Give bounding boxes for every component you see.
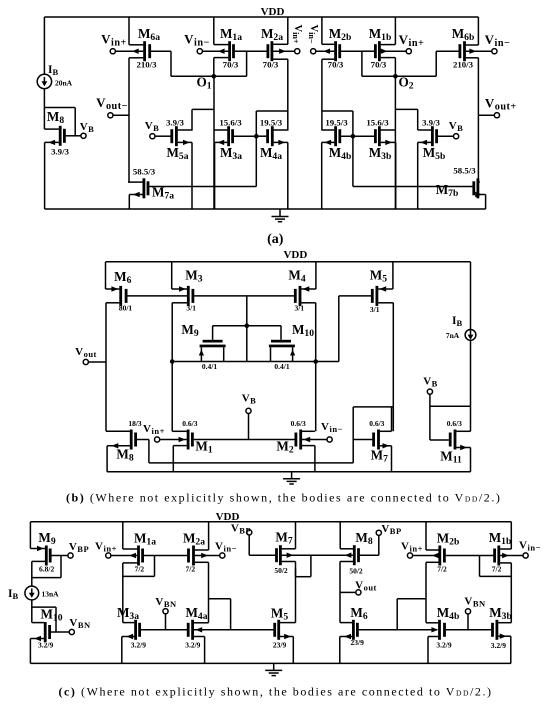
wire M5b drain jog (a)	[395, 109, 417, 130]
label 3/1 M3 (b)	[186, 304, 196, 313]
net label VDD (c)	[216, 511, 240, 523]
transistor M9 (c)	[30, 522, 68, 586]
svg-text:70/3: 70/3	[223, 60, 239, 70]
label M5b	[423, 145, 446, 162]
wire gate column (b)	[246, 296, 248, 362]
svg-text:3.9/3: 3.9/3	[51, 147, 69, 157]
terminal Vout- (a)	[108, 113, 113, 118]
label M4a	[260, 145, 282, 162]
wire VDD rail (b)	[106, 261, 471, 263]
transistor M8 (b)	[106, 430, 353, 472]
svg-text:210/3: 210/3	[453, 60, 474, 70]
label 3.9/3 M5b	[422, 117, 440, 127]
junction dot gate net right (a)	[351, 134, 356, 139]
svg-text:0.6/3: 0.6/3	[182, 419, 197, 428]
label VB mid-left (a)	[145, 120, 160, 133]
label M8 (c)	[355, 530, 372, 547]
wire ground rail (c)	[30, 662, 511, 664]
transistor M2a	[247, 17, 295, 131]
label VBN right (c)	[464, 596, 486, 609]
label VB mid-right (a)	[449, 120, 464, 133]
label 70/3 M2b	[328, 60, 344, 70]
transistor M4b (c)	[426, 620, 491, 664]
net label VDD (a)	[261, 6, 285, 18]
label 19.5/3 M4b	[325, 117, 348, 127]
label 7nA (b)	[446, 331, 460, 340]
caption (c)	[59, 685, 493, 699]
label M6a	[138, 26, 160, 43]
transistor M11 (b)	[430, 406, 471, 472]
wire Vout- stub (a)	[113, 114, 129, 116]
transistor M2 (b)	[295, 430, 328, 472]
terminal Vin- (b)	[327, 437, 332, 442]
svg-text:70/3: 70/3	[371, 60, 387, 70]
terminal Vin- middle (a)	[311, 49, 316, 54]
label M2b	[329, 26, 352, 43]
label M2a (c)	[183, 531, 205, 548]
wire VBP mid drop (c)	[248, 535, 250, 555]
svg-text:20nA: 20nA	[55, 79, 73, 88]
label M4b (c)	[437, 605, 460, 622]
wire capacitor bottom line (b)	[172, 361, 316, 363]
label M5 (c)	[271, 606, 288, 623]
terminal VBP mid (c)	[247, 530, 252, 535]
label M1b (c)	[489, 530, 512, 547]
label M1a (c)	[134, 531, 156, 548]
label 58.5/3 M7b	[453, 166, 476, 176]
label 58.5/3 M7a	[133, 167, 156, 177]
transistor M8 (c)	[340, 522, 379, 623]
svg-text:(c) (Where not explicitly show: (c) (Where not explicitly shown, the bod…	[59, 685, 493, 699]
label Vin- right (a)	[485, 32, 511, 49]
transistor M4 (b)	[294, 262, 316, 432]
label Vin+ (b)	[143, 423, 165, 436]
wire M5a drain jog (a)	[192, 109, 214, 130]
label VBP right (c)	[381, 523, 401, 536]
svg-text:7nA: 7nA	[446, 331, 460, 340]
transistor M6 (b)	[106, 262, 189, 432]
label M3b	[369, 145, 392, 162]
label Vin- inner-left (a)	[184, 32, 210, 49]
label VBP left (c)	[69, 541, 89, 554]
label IB (a)	[48, 64, 58, 77]
wire M8 gate-drain box (a)	[44, 108, 75, 136]
terminal Vin+ right (a)	[406, 49, 411, 54]
svg-text:19.5/3: 19.5/3	[325, 117, 348, 127]
label 50/2 M8 (c)	[349, 567, 363, 576]
label M10 (b)	[292, 322, 314, 339]
transistor M3 (b)	[172, 262, 294, 432]
svg-text:VDD: VDD	[261, 6, 285, 18]
wire M4a diode box (a)	[256, 111, 288, 136]
wire O1 column down (a)	[213, 76, 215, 209]
wire VB drop (b)	[248, 413, 250, 439]
label 3.2/9 M3a (c)	[131, 640, 146, 649]
terminal Vin+ right (c)	[407, 553, 412, 558]
label 0.4/1 M9 (b)	[202, 362, 217, 371]
svg-text:0.6/3: 0.6/3	[291, 419, 306, 428]
label M5 (b)	[370, 268, 387, 285]
wire M2b drain jog (c)	[397, 599, 426, 630]
terminal Vin+ left (c)	[106, 553, 111, 558]
label Vin+ right (a)	[399, 32, 425, 49]
label 70/3 M2a	[263, 60, 279, 70]
current source IB (a)	[37, 74, 51, 88]
svg-text:3.2/9: 3.2/9	[185, 640, 200, 649]
transistor M3a	[214, 126, 255, 209]
terminal VBP right (c)	[376, 530, 381, 535]
label 3/1 M5 (b)	[370, 305, 380, 314]
transistor M3b (c)	[491, 620, 511, 664]
svg-text:3.9/3: 3.9/3	[422, 117, 440, 127]
label M11 (b)	[440, 449, 462, 466]
label 0.6/3 M2 (b)	[291, 419, 306, 428]
transistor M5b	[418, 126, 454, 209]
terminal VBN right (c)	[465, 609, 470, 614]
svg-text:15.6/3: 15.6/3	[366, 117, 389, 127]
label Vin- middle rotated (a)	[307, 24, 319, 43]
label M2b (c)	[437, 531, 460, 548]
label 7/2 M2a (c)	[186, 564, 196, 573]
svg-text:(a): (a)	[267, 232, 284, 247]
label 18/3 M8 (b)	[128, 419, 142, 428]
wire Vout stub (b)	[88, 361, 106, 363]
transistor M4b	[322, 126, 374, 209]
label O1 (a)	[196, 75, 211, 92]
label 0.6/3 M11 (b)	[447, 419, 462, 428]
terminal Vin+ left (a)	[110, 49, 115, 54]
wire Vout+ stub (a)	[478, 114, 494, 116]
transistor M7 (b)	[353, 407, 393, 472]
label Vout- (a)	[96, 95, 128, 112]
terminal Vout+ (a)	[494, 113, 499, 118]
label 13nA (c)	[41, 590, 59, 599]
label M3a	[220, 145, 242, 162]
wire M5 gate jog (b)	[316, 296, 339, 362]
svg-text:3.2/9: 3.2/9	[131, 640, 146, 649]
circuit (c): bulk-driven pseudo-differential amplifier	[8, 511, 541, 699]
svg-text:0.4/1: 0.4/1	[274, 362, 289, 371]
label Vin+ right (c)	[401, 541, 423, 554]
transistor M3b	[374, 126, 396, 209]
terminal VBN mid-left (c)	[163, 609, 168, 614]
wire gate net down right (a)	[352, 136, 354, 186]
terminal VBP left (c)	[68, 553, 73, 558]
terminal VB mid-left (a)	[150, 134, 155, 139]
svg-text:0.4/1: 0.4/1	[202, 362, 217, 371]
wire O2 column down (a)	[394, 76, 396, 209]
svg-text:70/3: 70/3	[263, 60, 279, 70]
svg-text:18/3: 18/3	[128, 419, 142, 428]
transistor M5a	[155, 126, 192, 209]
label 7/2 M1b (c)	[492, 564, 502, 573]
wire IB to M10 (c)	[31, 600, 33, 623]
terminal Vin- left (c)	[220, 553, 225, 558]
svg-text:58.5/3: 58.5/3	[453, 166, 476, 176]
transistor M8 (a)	[44, 126, 81, 209]
label M6b	[452, 26, 475, 43]
svg-text:23/9: 23/9	[351, 638, 365, 647]
label O2 (a)	[398, 75, 413, 92]
circuit (b): bulk-driven OTA with MOS capacitors	[66, 249, 501, 505]
label M2a	[261, 26, 283, 43]
label M4 (b)	[288, 268, 305, 285]
label 20nA (a)	[55, 79, 73, 88]
label M7b	[436, 182, 459, 199]
circuit (a): bulk-driven FVF differential amplifier	[37, 6, 517, 247]
svg-text:0.6/3: 0.6/3	[447, 419, 462, 428]
label M1 (b)	[195, 439, 212, 456]
transistor M7 (c)	[249, 522, 353, 577]
wire ground rail (b)	[107, 471, 470, 473]
transistor M2a (c)	[187, 522, 231, 630]
label M3a (c)	[117, 605, 139, 622]
svg-text:19.5/3: 19.5/3	[260, 117, 283, 127]
svg-text:VDD: VDD	[283, 249, 307, 261]
transistor M1b	[362, 17, 407, 76]
wire O1 node line (a)	[171, 75, 247, 77]
svg-text:50/2: 50/2	[274, 566, 288, 575]
label 23/9 M5 (c)	[273, 640, 287, 649]
label VBP mid (c)	[231, 523, 251, 536]
svg-text:7/2: 7/2	[437, 564, 447, 573]
transistor M1a (c)	[111, 522, 189, 623]
svg-text:7/2: 7/2	[186, 564, 196, 573]
svg-text:3.9/3: 3.9/3	[166, 117, 184, 127]
terminal VB left (a)	[81, 133, 86, 138]
MOS capacitor M10 (b)	[247, 326, 295, 362]
label 80/1 M6 (b)	[119, 304, 133, 313]
terminal Vin+ middle (a)	[295, 49, 300, 54]
label M7 (b)	[371, 448, 388, 465]
label M9 (c)	[38, 530, 55, 547]
label VB (b)	[242, 393, 257, 406]
label Vin- left (c)	[215, 541, 237, 554]
svg-text:210/3: 210/3	[136, 60, 157, 70]
label M7a	[152, 185, 174, 202]
svg-text:80/1: 80/1	[119, 304, 133, 313]
terminal VBN left (c)	[69, 629, 74, 634]
label 3.2/9 M4b (c)	[436, 640, 451, 649]
label Vin- (b)	[321, 421, 343, 434]
transistor M5 (b)	[339, 262, 394, 432]
svg-text:3.2/9: 3.2/9	[491, 641, 506, 650]
transistor M6a	[115, 17, 171, 182]
label 3.2/9 M3b (c)	[491, 641, 506, 650]
transistor M2b	[316, 17, 362, 131]
transistor M7a	[128, 178, 256, 209]
transistor M1 (b)	[159, 430, 296, 472]
junction dot gate net left (a)	[254, 134, 259, 139]
terminal Vin- inner-left (a)	[197, 49, 202, 54]
terminal VB right (b)	[427, 389, 432, 394]
junction dot right cap line (b)	[313, 359, 318, 364]
label VB near M8 (a)	[80, 121, 95, 134]
wire gate net down left (a)	[255, 136, 257, 186]
terminal Vout (c)	[356, 590, 361, 595]
caption (a)	[267, 232, 284, 247]
label M4b	[329, 145, 352, 162]
label M2 (b)	[276, 439, 293, 456]
wire IB to M8 drain (a)	[43, 89, 45, 129]
wire ground rail (a)	[45, 208, 486, 210]
ground symbol (c)	[265, 663, 282, 675]
label 7/2 M2b (c)	[437, 564, 447, 573]
ground symbol (a)	[272, 209, 289, 222]
terminal VB mid-right (a)	[454, 134, 459, 139]
junction dot O2 (a)	[393, 74, 398, 79]
wire VDD rail (c)	[30, 521, 511, 523]
label 70/3 M1a	[223, 60, 239, 70]
svg-text:7/2: 7/2	[492, 564, 502, 573]
label 23/9 M6 (c)	[351, 638, 365, 647]
junction dot M9/M10 gates (b)	[245, 323, 250, 328]
svg-text:50/2: 50/2	[349, 567, 363, 576]
current source IB (c)	[25, 586, 39, 600]
transistor M1b (c)	[480, 522, 524, 623]
svg-text:3.2/9: 3.2/9	[38, 640, 53, 649]
label 3.2/9 M4a (c)	[185, 640, 200, 649]
label VBN mid-left (c)	[155, 596, 177, 609]
transistor M6b	[436, 17, 492, 182]
transistor M1a	[202, 17, 246, 76]
transistor M5 (c)	[273, 569, 295, 664]
label IB (c)	[8, 588, 18, 601]
label 50/2 M7 (c)	[274, 566, 288, 575]
junction dot left cap line (b)	[170, 359, 175, 364]
label M10 (c)	[40, 607, 62, 624]
wire VDD rail (a)	[44, 16, 478, 18]
wire M4b diode box (a)	[322, 111, 353, 136]
svg-text:3/1: 3/1	[186, 304, 196, 313]
transistor M3a (c)	[122, 620, 187, 664]
svg-text:70/3: 70/3	[328, 60, 344, 70]
wire Vout stub (c)	[340, 591, 356, 593]
label M8 (a)	[47, 109, 64, 126]
label 210/3 M6b	[453, 60, 474, 70]
label 210/3 M6a	[136, 60, 157, 70]
label 0.6/3 M7 (b)	[369, 419, 384, 428]
label IB (b)	[452, 315, 462, 328]
current source IB (b)	[465, 262, 476, 407]
label M1a	[220, 26, 242, 43]
caption (b)	[66, 491, 501, 505]
label M5a	[166, 145, 188, 162]
svg-text:(b) (Where not explicitly show: (b) (Where not explicitly shown, the bod…	[66, 491, 501, 505]
label M6 (c)	[350, 605, 367, 622]
ground symbol (b)	[283, 472, 300, 484]
label 0.4/1 M10 (b)	[274, 362, 289, 371]
label Vin- right (c)	[519, 540, 541, 553]
net label VDD (b)	[283, 249, 307, 261]
transistor M7b	[353, 178, 486, 209]
wire O2 node line (a)	[362, 75, 436, 77]
label 19.5/3 M4a	[260, 117, 283, 127]
transistor M6 (c)	[340, 620, 437, 664]
label M3 (b)	[185, 268, 202, 285]
wire M10 gate-drain box (c)	[32, 607, 56, 632]
label 6.8/2 M9 (c)	[39, 565, 54, 574]
svg-text:0.6/3: 0.6/3	[369, 419, 384, 428]
junction dot O1 (a)	[212, 74, 217, 79]
MOS capacitor M9 (b)	[199, 326, 247, 362]
wire VBN drop right (c)	[467, 614, 469, 630]
svg-text:7/2: 7/2	[135, 564, 145, 573]
label VB right (b)	[423, 376, 438, 389]
svg-text:3/1: 3/1	[370, 305, 380, 314]
svg-text:58.5/3: 58.5/3	[133, 167, 156, 177]
label Vout (c)	[355, 580, 377, 593]
label M7 (c)	[275, 530, 292, 547]
terminal Vin+ (b)	[155, 437, 160, 442]
label VBN left (c)	[69, 617, 91, 630]
label 0.6/3 M1 (b)	[182, 419, 197, 428]
label Vout (b)	[75, 346, 97, 359]
label 3.9/3 M8 (a)	[51, 147, 69, 157]
terminal Vin- right (c)	[523, 553, 528, 558]
terminal Vin- right (a)	[492, 49, 497, 54]
terminal VB (b)	[246, 408, 251, 413]
label Vout+ (a)	[485, 96, 517, 113]
wire VBN drop left (c)	[165, 614, 167, 630]
label Vin+ left (c)	[95, 541, 117, 554]
transistor M4a	[257, 126, 287, 209]
svg-text:6.8/2: 6.8/2	[39, 565, 54, 574]
label 15.6/3 M3a	[219, 117, 242, 127]
label M3b (c)	[489, 605, 512, 622]
transistor M10 (c)	[30, 622, 69, 663]
svg-text:13nA: 13nA	[41, 590, 59, 599]
label Vin+ middle rotated (a)	[291, 24, 303, 43]
label M6 (b)	[114, 269, 131, 286]
svg-text:23/9: 23/9	[273, 640, 287, 649]
label 3/1 M4 (b)	[295, 304, 305, 313]
transistor M2b (c)	[412, 522, 494, 623]
svg-text:15.6/3: 15.6/3	[219, 117, 242, 127]
label M4a (c)	[185, 605, 207, 622]
label 7/2 M1a (c)	[135, 564, 145, 573]
label 15.6/3 M3b	[366, 117, 389, 127]
label 3.9/3 M5a	[166, 117, 184, 127]
label M8 (b)	[116, 447, 133, 464]
label 3.2/9 M10 (c)	[38, 640, 53, 649]
label Vin+ left (a)	[101, 32, 127, 49]
wire left rail upper (a)	[43, 17, 45, 74]
label M1b	[369, 26, 392, 43]
transistor M4a (c)	[187, 620, 274, 664]
wire VB right drop (b)	[430, 394, 471, 440]
label 70/3 M1b	[371, 60, 387, 70]
terminal Vout (b)	[83, 359, 88, 364]
label M9 (b)	[181, 322, 198, 339]
svg-text:3.2/9: 3.2/9	[436, 640, 451, 649]
svg-text:3/1: 3/1	[295, 304, 305, 313]
